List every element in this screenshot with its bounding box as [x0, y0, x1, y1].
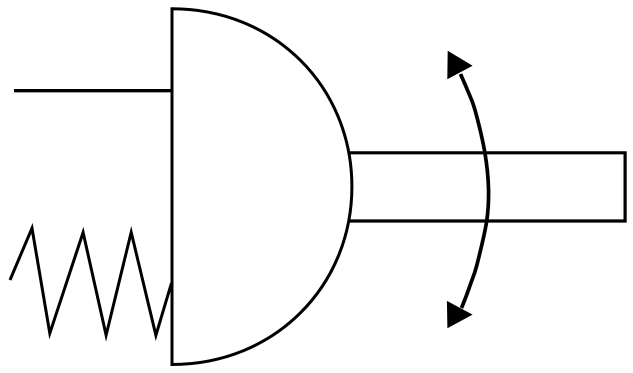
- actuator body (semicircular D shape): [172, 9, 352, 365]
- arrowhead top: [447, 51, 472, 80]
- arrowhead bottom: [447, 301, 473, 328]
- rotation arrow arc: [461, 74, 489, 308]
- shaft/rod rectangle: [344, 153, 625, 221]
- spring (return spring zigzag): [10, 228, 172, 335]
- wire: left pilot/control line: [14, 89, 172, 92]
